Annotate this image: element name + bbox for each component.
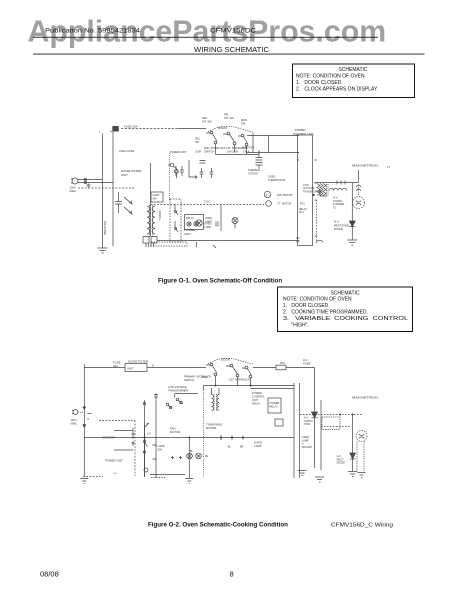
header rule top (33, 36, 378, 39)
svg-text:UNIT: UNIT (184, 232, 191, 236)
lamp switch box (151, 192, 163, 202)
svg-text:Figure O-1. Oven Schematic-Off: Figure O-1. Oven Schematic-Off Condition (158, 278, 282, 285)
ground magnetron (358, 473, 366, 478)
neutral tick (87, 413, 91, 415)
door linkage dashed arc (208, 126, 252, 132)
connector ticks (132, 428, 135, 446)
bus arrow marks (83, 407, 86, 409)
neutral bus N (112, 129, 114, 247)
svg-text:60HZ.: 60HZ. (70, 189, 77, 193)
internal wire upper (114, 430, 133, 432)
bus junction dots (144, 437, 145, 438)
thermal cutout (256, 151, 263, 170)
svg-text:SW.: SW. (241, 121, 246, 125)
power unit dashed box bottom (83, 476, 103, 478)
dashed wire to magnetron (300, 414, 362, 416)
wire interlock bottom (216, 151, 260, 155)
H.V. diode CR1 (351, 183, 353, 222)
svg-text:MAGNETRON: MAGNETRON (352, 164, 378, 168)
bend wire (189, 160, 197, 179)
interlock bottom wires (216, 376, 251, 386)
relay aux box (275, 419, 283, 426)
wire cluster to fuse (253, 367, 276, 369)
control unit U1 box (298, 135, 313, 246)
secondary interlock switch S2 (210, 131, 213, 134)
svg-text:NOISE FILTER: NOISE FILTER (128, 360, 149, 364)
small cap (200, 161, 206, 164)
relay RY-2 contacts (170, 163, 174, 167)
power unit dashed box top (99, 420, 135, 422)
ground chassis right (347, 240, 357, 245)
relay contacts inside K1 (175, 204, 178, 232)
control rail dotted (202, 390, 204, 478)
T2 primary coil (212, 395, 214, 411)
svg-text:WIRING SCHEMATIC: WIRING SCHEMATIC (194, 45, 269, 54)
T1 core dashes (327, 184, 329, 196)
svg-text:N: N (87, 418, 89, 421)
capacitor C4 (200, 168, 204, 178)
primary interlock switch S1 (227, 132, 230, 135)
svg-text:CFMV156D_C Wiring: CFMV156D_C Wiring (331, 523, 393, 529)
svg-text:ITOR: ITOR (304, 422, 310, 426)
svg-text:INT. SW.: INT. SW. (202, 119, 212, 123)
H.V. diode CR1 (312, 412, 318, 418)
door sensing switch wire (247, 136, 299, 153)
svg-text:1. DOOR CLOSED.: 1. DOOR CLOSED. (283, 303, 330, 309)
H.V. transformer T1 primary coil (317, 184, 326, 196)
svg-text:MOTOR: MOTOR (206, 426, 216, 430)
svg-text:RELAY: RELAY (186, 217, 194, 220)
T1 filament winding (329, 188, 347, 190)
magnetron lead from label (358, 170, 360, 183)
svg-text:VARISTOR: VARISTOR (103, 221, 107, 235)
svg-text:POWER: POWER (252, 391, 262, 395)
bus junction ticks (221, 435, 243, 440)
connector pins bottom (143, 237, 149, 244)
svg-text:POWER UNIT: POWER UNIT (170, 150, 187, 154)
low voltage transformer T2 core (149, 205, 151, 238)
svg-text:RY2: RY2 (300, 203, 305, 206)
svg-text:20A 250V: 20A 250V (227, 150, 239, 154)
HV cap line 2 (320, 400, 322, 470)
svg-text:2. COOKING TIME PROGRAMMED.: 2. COOKING TIME PROGRAMMED. (283, 310, 368, 316)
main bus horizontal (84, 437, 294, 439)
line bus L (102, 134, 104, 247)
svg-text:UNIT: UNIT (252, 398, 258, 402)
primary interlock switch S1 (230, 364, 233, 367)
internal wire lower (114, 449, 133, 451)
varistor RV1 arrows (124, 197, 132, 204)
ground left bus (98, 246, 108, 253)
T2 secondary coil (217, 395, 219, 411)
dashed chassis line (78, 187, 135, 189)
svg-text:SOCKET: SOCKET (302, 445, 313, 449)
noise filter unit box (125, 364, 147, 372)
cavity lamp (232, 218, 238, 224)
capacitor C1 (115, 192, 122, 213)
rail switch contacts (143, 440, 145, 442)
power unit rail (168, 153, 170, 200)
svg-text:NOTE: CONDITION OF OVEN: NOTE: CONDITION OF OVEN (296, 74, 365, 80)
monitor switch S3 (245, 366, 248, 369)
svg-text:N: N (152, 364, 154, 368)
svg-text:2. CLOCK APPEARS ON DISPLAY.: 2. CLOCK APPEARS ON DISPLAY. (296, 87, 378, 93)
chassis curve mark (316, 240, 323, 242)
svg-text:RY-2: RY-2 (299, 211, 305, 214)
svg-text:DIODE: DIODE (337, 461, 345, 465)
fan motor FM (264, 191, 270, 197)
svg-text:DOOR: DOOR (218, 126, 228, 130)
svg-text:FUSE: FUSE (303, 362, 311, 366)
svg-text:LAMP: LAMP (204, 225, 211, 229)
junction dot control unit output (313, 194, 315, 196)
ground rail (298, 471, 307, 476)
rail lamp contact (143, 402, 145, 404)
control unit vertical rails (294, 383, 300, 478)
capacitor C5 (210, 168, 214, 178)
relay box K1 (170, 199, 181, 242)
dashed wire lower (321, 426, 350, 428)
connector CN-B block (185, 215, 204, 230)
lamp socket mark (216, 222, 218, 227)
wire junction row (203, 386, 294, 391)
svg-text:Figure O-2. Oven Schematic-Coo: Figure O-2. Oven Schematic-Cooking Condi… (148, 522, 288, 529)
secondary interlock switch S2 (210, 363, 213, 366)
svg-text:FUSE 20A: FUSE 20A (124, 125, 137, 129)
svg-text:FAN MOTOR: FAN MOTOR (277, 193, 292, 197)
wire plug to bus (78, 411, 84, 413)
turntable motor TTM (266, 201, 272, 207)
svg-text:DIODE: DIODE (334, 227, 343, 231)
junction dot on bus (84, 425, 86, 427)
capacitor C2 (174, 166, 178, 176)
motor M1 (187, 453, 193, 459)
power supply cord plug (71, 178, 87, 184)
rail x156 (155, 394, 157, 479)
svg-text:MOTOR: MOTOR (170, 430, 180, 434)
magnetron tube (353, 197, 365, 209)
fuse F1 20A (113, 127, 119, 132)
svg-text:CUTOUT: CUTOUT (248, 171, 259, 175)
HV line down (314, 368, 316, 413)
svg-text:COM: COM (195, 151, 201, 154)
svg-text:3. VARIABLE COOKING CONTRO: 3. VARIABLE COOKING CONTROL (283, 316, 408, 322)
bottom dashed corner (151, 477, 166, 479)
rail arrow (145, 423, 149, 427)
junction mark (197, 242, 217, 248)
fan motor rail (144, 425, 146, 477)
magnetron tube (356, 431, 367, 442)
svg-text:TRANS: TRANS (158, 210, 162, 220)
wire bus to noise filter (84, 367, 125, 369)
svg-text:MONITOR: MONITOR (242, 146, 254, 150)
ground HV rail (315, 477, 324, 482)
connector terminal marks (146, 243, 154, 247)
junction dots on dashed wire (339, 414, 340, 415)
main line bus (83, 364, 85, 477)
svg-text:LINE FILTER: LINE FILTER (119, 149, 134, 153)
junction dots (215, 385, 216, 386)
power supply cord plug (72, 410, 78, 415)
ground motor rail (185, 479, 193, 484)
svg-text:MAGNETRON: MAGNETRON (352, 396, 378, 400)
box bottom pin (296, 237, 300, 239)
svg-text:N: N (110, 130, 112, 134)
note box 2 (278, 287, 413, 332)
motor rail (188, 438, 190, 479)
wire noise filter to interlock cluster (147, 367, 206, 369)
bottom wire to control unit (157, 240, 299, 242)
rail component mark (154, 395, 158, 398)
wire fuse to HV line (286, 367, 315, 369)
svg-text:CN: CN (147, 433, 151, 436)
header rule bottom (33, 53, 425, 56)
svg-text:THERMOSTAT: THERMOSTAT (268, 178, 286, 182)
motor M2 (196, 453, 202, 459)
T1 winding ticks (337, 181, 345, 185)
svg-text:POWER: POWER (270, 401, 280, 405)
svg-text:Publication No. 5995421834: Publication No. 5995421834 (45, 29, 141, 35)
capacitor C3 (180, 166, 184, 176)
svg-text:TRANSFORMER: TRANSFORMER (168, 388, 188, 392)
svg-text:60HZ.: 60HZ. (71, 421, 78, 425)
magnetron filament leads (357, 442, 364, 472)
T2 secondary coil (152, 206, 155, 234)
control unit pins (297, 153, 317, 237)
plug ground (87, 184, 91, 189)
svg-text:T.T. MOTOR: T.T. MOTOR (277, 202, 291, 206)
svg-text:UNIT: UNIT (127, 367, 134, 371)
dashed control line (151, 204, 265, 206)
svg-text:08/08: 08/08 (40, 570, 59, 579)
bottom solid wire (150, 474, 185, 476)
T1 secondary bracket (320, 189, 327, 196)
wire to control unit (247, 152, 300, 154)
svg-text:SWITCH: SWITCH (184, 378, 194, 382)
relay switch K2 (175, 394, 199, 398)
junction stub (252, 133, 254, 153)
noise filter boundary wire (150, 163, 152, 236)
oven lamp (196, 220, 202, 226)
bus junction dots right (231, 437, 232, 438)
svg-text:1. DOOR CLOSED.: 1. DOOR CLOSED. (296, 80, 343, 86)
note box 1 (293, 64, 415, 98)
power relay box (268, 398, 281, 413)
wire plug to line bus (87, 180, 114, 183)
main transformer T2 core (214, 394, 217, 411)
svg-text:BR: BR (240, 446, 244, 449)
svg-text:20A: 20A (280, 361, 285, 365)
T2 primary coil (147, 206, 150, 234)
svg-text:UNIT: UNIT (121, 173, 128, 177)
svg-text:"HIGH".: "HIGH". (283, 323, 309, 329)
relay switch K3 (166, 403, 169, 406)
svg-text:SWITCH: SWITCH (204, 149, 214, 153)
ground bus left (80, 479, 88, 484)
rail lamp (144, 468, 148, 472)
wire relay row (251, 388, 295, 390)
svg-text:LAMP: LAMP (254, 444, 262, 448)
interlock wiring (216, 144, 247, 155)
ground diode (348, 472, 357, 477)
svg-text:SW.: SW. (153, 198, 158, 201)
svg-text:POWER UNIT: POWER UNIT (105, 459, 123, 463)
power unit dashed box right (134, 421, 136, 477)
junction cross ticks (171, 456, 182, 459)
svg-text:8: 8 (230, 570, 234, 579)
filter box (322, 417, 340, 430)
oven lamp branch (220, 205, 222, 232)
svg-text:SW.: SW. (158, 447, 163, 451)
svg-text:RELAY: RELAY (270, 405, 279, 409)
svg-text:CFMV156DC: CFMV156DC (210, 29, 257, 35)
door linkage dashed arc (208, 358, 253, 364)
T2 tap leads (212, 388, 220, 395)
svg-text:CN-C: CN-C (204, 201, 210, 204)
svg-text:SW.: SW. (195, 141, 200, 144)
svg-text:RELAY: RELAY (252, 402, 261, 406)
svg-text:o o: o o (113, 471, 117, 475)
monitor switch S3 (241, 134, 244, 137)
H.V. fuse F2 (276, 365, 286, 370)
rail x144.5 (144, 400, 146, 477)
magnetron filament feed (358, 185, 360, 196)
svg-text:CONTROL: CONTROL (252, 395, 265, 399)
svg-text:CN: CN (296, 241, 300, 244)
wire fuse to interlock cluster (121, 128, 178, 130)
terminal strip dashed (151, 242, 187, 246)
wire control unit to magnetron line (315, 182, 359, 184)
H.V. transformer secondary diode (352, 415, 354, 454)
svg-text:SCHEMATIC: SCHEMATIC (338, 67, 367, 73)
dashed sense line (316, 200, 318, 243)
svg-text:CN-A: CN-A (243, 150, 250, 154)
svg-text:1ST. INTERLOCK: 1ST. INTERLOCK (229, 378, 250, 382)
svg-text:INT. SW.: INT. SW. (224, 116, 234, 120)
svg-text:NOTE: CONDITION OF OVEN: NOTE: CONDITION OF OVEN (283, 297, 352, 303)
